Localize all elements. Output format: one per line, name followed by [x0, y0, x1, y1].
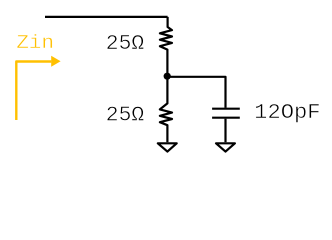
- svg-text:25Ω: 25Ω: [106, 33, 144, 56]
- node junction dot: [164, 73, 171, 80]
- wire top (input to R1): [45, 16, 168, 18]
- capacitor C1 top plate: [212, 108, 240, 110]
- wire from node to capacitor: [167, 77, 225, 108]
- wire capacitor to ground: [224, 119, 226, 143]
- ground under capacitor: [216, 143, 235, 151]
- capacitor C1 bottom plate: [212, 117, 240, 119]
- resistor R1: [160, 17, 172, 73]
- resistor R2: [160, 77, 172, 142]
- svg-text:12OpF: 12OpF: [254, 102, 320, 125]
- svg-text:Zin: Zin: [16, 32, 54, 54]
- Zin port arrow: [16, 56, 60, 120]
- ground under R2: [158, 143, 177, 151]
- svg-text:25Ω: 25Ω: [106, 104, 144, 127]
